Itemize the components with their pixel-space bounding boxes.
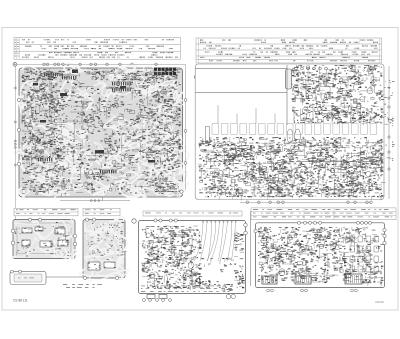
svg-text:CS 88 111: CS 88 111 bbox=[13, 299, 28, 303]
svg-text:b+w: b+w bbox=[366, 280, 372, 284]
svg-text:AB290: AB290 bbox=[375, 300, 384, 304]
svg-text:VCTDA: VCTDA bbox=[350, 118, 369, 123]
